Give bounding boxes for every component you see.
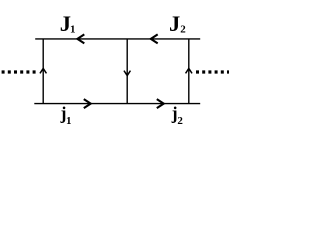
arrow right on bottom segment 2 [157, 99, 164, 108]
svg-text:J: J [169, 11, 180, 36]
wire: left vertical line [42, 39, 44, 104]
arrow up on left vertical [40, 68, 46, 73]
wire: right vertical line [188, 39, 190, 104]
label J1 [60, 11, 76, 36]
arrow right on bottom segment 1 [84, 99, 91, 108]
arrow down on middle vertical [124, 71, 130, 76]
dotted line left [2, 70, 36, 73]
svg-text:2: 2 [180, 23, 186, 35]
wire: top horizontal line [35, 38, 200, 40]
dotted line right [196, 70, 229, 73]
label J2 [169, 11, 186, 36]
svg-text:1: 1 [66, 115, 72, 127]
wire: middle vertical line [126, 39, 128, 104]
arrow left on top segment 2 [151, 34, 158, 43]
arrow left on top segment 1 [77, 34, 84, 43]
label j2 [171, 103, 184, 127]
svg-text:2: 2 [177, 115, 183, 127]
arrow up on right vertical [186, 68, 192, 73]
wire: bottom horizontal line [34, 103, 200, 105]
label j1 [60, 103, 72, 127]
svg-text:1: 1 [70, 23, 76, 35]
